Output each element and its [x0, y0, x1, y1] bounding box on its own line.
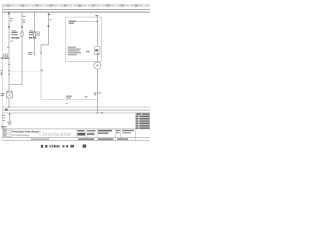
- label J17: [69, 21, 77, 24]
- svg-text:Stromlaufplan Kraftstoffpumpe: Stromlaufplan Kraftstoffpumpe: [12, 129, 40, 133]
- cell 8 text: [122, 130, 133, 134]
- cell 5 text: [87, 130, 96, 135]
- dashed link tick: [40, 69, 43, 71]
- frame left border: [1, 4, 3, 140]
- fuse S14: [33, 32, 35, 37]
- svg-text:27: 27: [92, 4, 96, 8]
- svg-text:28: 28: [106, 4, 110, 8]
- rail 31 label: [5, 109, 8, 111]
- rail A: [2, 106, 150, 108]
- node junction on bus 15: [8, 12, 10, 14]
- cell 6 text: [98, 130, 112, 134]
- connector tick path 1: [8, 26, 10, 28]
- pin label above box: [95, 15, 98, 16]
- rail B: [2, 112, 150, 114]
- ground drop wire: [9, 113, 11, 122]
- fuse S14 label: [29, 30, 36, 38]
- wire gauge label mid-run: [66, 96, 88, 104]
- wire below fuse S14: [33, 37, 35, 54]
- viewer footer page controls: [41, 145, 86, 148]
- cell 4 text: [77, 130, 85, 135]
- bottom row text: [31, 138, 128, 140]
- wire stub from left margin: [2, 57, 9, 59]
- relay contact component: [95, 46, 100, 54]
- wire label beside: [94, 92, 101, 95]
- component box Z1: [36, 32, 40, 36]
- wire bend to x41: [41, 45, 48, 55]
- connector tick path 2: [21, 26, 23, 28]
- rail 31: [2, 109, 150, 111]
- control unit J17 boundary: [66, 17, 102, 62]
- cell 7 text: [116, 130, 120, 133]
- junction wire to rail: [8, 106, 10, 108]
- fuse S13 label: [10, 30, 19, 41]
- connector T10/5: [7, 46, 9, 48]
- ground wire top tick: [9, 114, 11, 115]
- svg-text:25: 25: [64, 4, 68, 8]
- margin label text: [1, 57, 9, 59]
- margin labels above mini table: [1, 126, 7, 128]
- junction: [97, 21, 99, 23]
- wire current path 2: [21, 12, 23, 32]
- svg-text:21: 21: [7, 4, 11, 8]
- terminal arrow component at left margin: [4, 54, 8, 57]
- node 31 dashed link: [10, 70, 43, 72]
- wire label: [23, 16, 26, 23]
- faint wire down to bottom run: [41, 55, 97, 100]
- connector label: [28, 52, 32, 55]
- fuse S13: [21, 32, 23, 37]
- bus terminal 15: [2, 11, 150, 13]
- svg-text:30: 30: [135, 4, 139, 8]
- wire to motor: [96, 55, 98, 62]
- wire current path 3: [33, 12, 35, 32]
- junction on rail: [97, 112, 99, 114]
- wire label: [48, 14, 52, 21]
- jog wire from fuse path to ground box: [9, 37, 22, 85]
- internal wire: [77, 21, 98, 23]
- margin label 31: [1, 70, 3, 75]
- bus terminal 30: [2, 8, 150, 10]
- wire label 0.5 sw: [10, 18, 13, 22]
- svg-text:26: 26: [78, 4, 82, 8]
- svg-text:22: 22: [21, 4, 25, 8]
- svg-text:Stromlaufplan: Stromlaufplan: [42, 132, 72, 138]
- title block: [2, 129, 150, 140]
- margin labels: [2, 115, 5, 121]
- wire inside control unit: [96, 17, 98, 47]
- svg-text:23: 23: [35, 4, 39, 8]
- rail label tick: [100, 112, 103, 113]
- mini table marks: [3, 130, 7, 137]
- ground symbol: [7, 121, 12, 123]
- box label left: [1, 93, 5, 96]
- svg-text:24: 24: [49, 4, 53, 8]
- wire current path 4: [47, 12, 49, 45]
- pin labels: [7, 91, 9, 92]
- svg-text:29: 29: [120, 4, 124, 8]
- arrow: [86, 50, 90, 52]
- svg-text:und Vorgluehanlage: und Vorgluehanlage: [12, 134, 30, 137]
- connector dash: [40, 52, 42, 54]
- revision table: [135, 113, 150, 129]
- wire motor to rail: [96, 69, 98, 113]
- control unit text block: [68, 47, 82, 56]
- ground connector box X1: [7, 92, 13, 98]
- connector dashes: [33, 53, 35, 55]
- motor V7: [94, 62, 101, 69]
- wire current path 1: [8, 12, 10, 107]
- wire marker ticks: [8, 64, 10, 66]
- frame top column-number band: [2, 4, 150, 8]
- connector tick dark: [48, 25, 50, 27]
